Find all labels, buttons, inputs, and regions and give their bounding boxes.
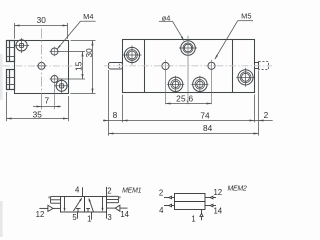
left square blocked port 5 T [76, 209, 81, 213]
pilot box right [107, 196, 120, 202]
right override pin hidden outline [259, 62, 269, 70]
pilot 14 triangle [115, 205, 120, 211]
svg-text:14: 14 [120, 210, 129, 219]
dimension 30 right [71, 41, 96, 94]
right end cap split line [232, 40, 234, 93]
right square flow path vertical with arrow [102, 197, 104, 212]
svg-text:4: 4 [159, 206, 164, 215]
svg-text:M4: M4 [83, 12, 93, 21]
front screw right [236, 68, 255, 87]
scan artifact left edge bar upper [0, 54, 3, 100]
svg-text:4: 4 [75, 186, 80, 195]
port 1 line [91, 212, 93, 220]
right square flow path diagonal with arrow [89, 198, 94, 212]
svg-text:7: 7 [44, 95, 49, 105]
pilot box left [49, 196, 60, 203]
end view body square [15, 41, 69, 94]
centerline horizontal front view [104, 65, 272, 67]
port 3 line [106, 212, 108, 219]
svg-text:84: 84 [203, 123, 213, 133]
dim extension body right edge [254, 95, 256, 123]
dimension 7 bottom [33, 105, 61, 107]
svg-text:12: 12 [213, 188, 222, 197]
dimension 84 [109, 132, 259, 134]
M5 hole right + dim 25,6 extension [208, 62, 215, 69]
dimension 15 right [59, 52, 85, 80]
left tab thread dots [119, 64, 120, 68]
pilot 14 line [120, 207, 128, 209]
valve MEM1 right position square [85, 197, 107, 213]
port 1 line MEM2 [200, 210, 203, 221]
right square blocked port T [86, 209, 90, 213]
o4 counterbored hole [179, 41, 197, 56]
svg-text:MEM1: MEM1 [122, 188, 141, 195]
svg-text:M5: M5 [241, 12, 251, 21]
svg-text:8: 8 [113, 110, 118, 120]
svg-text:74: 74 [200, 110, 210, 120]
label M5 with leader [215, 12, 253, 60]
center pilot hole [37, 62, 47, 69]
M4 hole upper [50, 48, 60, 55]
scan artifact left edge bar lower [0, 201, 3, 237]
small hole left + dim 25,6 extension [162, 62, 169, 69]
dim extension pin right [258, 71, 260, 136]
svg-text:30: 30 [37, 15, 47, 25]
dimension 2 [255, 119, 273, 121]
dimension 8 [103, 119, 123, 121]
M4 hole lower [50, 76, 60, 83]
port 4 line MEM2 [164, 204, 175, 207]
pilot 12 line [39, 207, 48, 209]
left end cap split line [144, 40, 146, 93]
valve MEM1 left position square [61, 197, 85, 213]
svg-text:12: 12 [36, 210, 45, 219]
lower manifold tab [7, 70, 15, 90]
valve MEM2 middle divider [175, 201, 206, 203]
port hole bottom left [167, 76, 184, 93]
left square flow path vertical with arrow [64, 197, 66, 212]
svg-text:1: 1 [191, 214, 195, 223]
centerline horizontal end view [3, 65, 76, 67]
front screw left [123, 45, 142, 64]
dim extension body left edge [122, 95, 124, 123]
svg-text:35: 35 [33, 110, 43, 120]
dimension 25,6 [166, 102, 212, 104]
dimension 30 top [15, 23, 68, 39]
svg-text:3: 3 [107, 213, 111, 222]
lower M4 centerline + dim 7 extension right [54, 74, 56, 109]
valve axis vertical centerline [187, 36, 189, 105]
left square flow path diagonal with arrow [73, 198, 82, 212]
svg-text:5: 5 [72, 213, 77, 222]
svg-text:14: 14 [213, 206, 222, 215]
front view body [123, 40, 255, 93]
pilot 12 triangle [48, 205, 53, 211]
pilot 14 tip line [107, 207, 116, 209]
svg-text:2: 2 [264, 110, 269, 120]
center hole vertical centerline + dim 7 extension left [41, 29, 43, 94]
left pilot tab [109, 63, 123, 70]
valve MEM2 body [175, 194, 206, 210]
screw bottom-right [54, 78, 69, 93]
dimension 74 [123, 119, 255, 121]
svg-text:1: 1 [87, 215, 91, 224]
svg-text:2: 2 [159, 189, 163, 198]
M4 hole centerline vertical upper [54, 47, 56, 57]
dim extension tab left [108, 70, 110, 136]
pilot 12 tip line [53, 207, 60, 209]
label o4 with leader [159, 13, 184, 41]
port 2 line MEM2 [164, 196, 175, 199]
dimension 35 bottom [7, 92, 69, 121]
svg-text:30: 30 [84, 48, 94, 58]
port 5 line [77, 212, 79, 219]
port 2 line [106, 187, 108, 197]
port 14 line MEM2 [205, 204, 216, 207]
svg-text:2: 2 [107, 186, 111, 195]
label M4 with leader [57, 12, 96, 50]
upper manifold tab [7, 41, 15, 62]
screw top-left [14, 38, 29, 53]
svg-text:MEM2: MEM2 [227, 186, 246, 193]
svg-text:25,6: 25,6 [176, 93, 193, 103]
port hole bottom right [191, 76, 208, 93]
port 4 line [82, 187, 84, 196]
port 12 line MEM2 [205, 196, 216, 199]
right override pin [255, 63, 259, 69]
svg-text:15: 15 [73, 61, 83, 71]
